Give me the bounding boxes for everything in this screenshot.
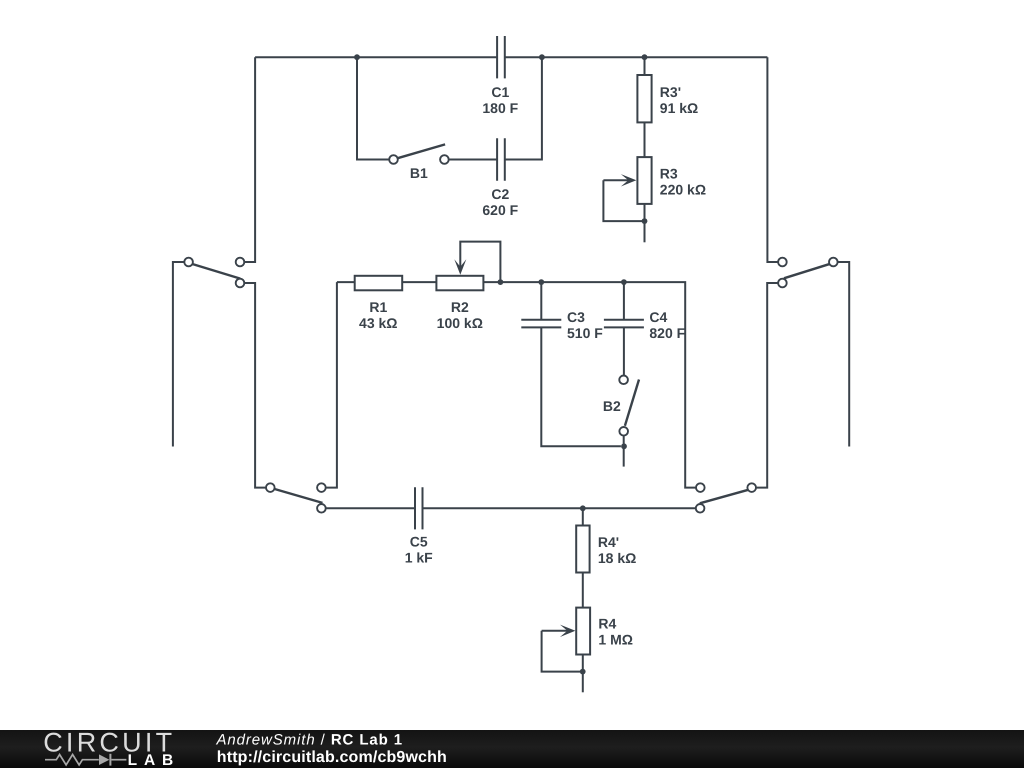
svg-text:http://circuitlab.com/cb9wchh: http://circuitlab.com/cb9wchh <box>217 749 447 766</box>
svg-text:C2: C2 <box>491 186 509 202</box>
svg-text:1 kF: 1 kF <box>405 550 433 566</box>
svg-text:100 kΩ: 100 kΩ <box>437 315 483 331</box>
svg-text:18 kΩ: 18 kΩ <box>598 550 636 566</box>
svg-text:91 kΩ: 91 kΩ <box>660 100 698 116</box>
svg-text:LAB: LAB <box>128 752 181 768</box>
svg-text:R2: R2 <box>451 299 469 315</box>
svg-text:R4': R4' <box>598 534 619 550</box>
svg-text:R3': R3' <box>660 84 681 100</box>
svg-text:R1: R1 <box>369 299 387 315</box>
svg-text:C5: C5 <box>410 534 428 550</box>
svg-text:AndrewSmith / RC Lab 1: AndrewSmith / RC Lab 1 <box>216 732 404 749</box>
svg-text:180 F: 180 F <box>482 100 518 116</box>
svg-text:R3: R3 <box>660 166 678 182</box>
svg-text:510 F: 510 F <box>567 325 603 341</box>
svg-text:43 kΩ: 43 kΩ <box>359 315 397 331</box>
svg-text:820 F: 820 F <box>649 325 685 341</box>
svg-text:B2: B2 <box>603 398 621 414</box>
svg-text:C1: C1 <box>491 84 509 100</box>
svg-text:R4: R4 <box>598 616 616 632</box>
svg-text:B1: B1 <box>410 165 428 181</box>
svg-text:620 F: 620 F <box>482 202 518 218</box>
svg-text:1 MΩ: 1 MΩ <box>598 632 633 648</box>
svg-text:C4: C4 <box>649 309 667 325</box>
svg-text:C3: C3 <box>567 309 585 325</box>
svg-text:220 kΩ: 220 kΩ <box>660 182 706 198</box>
